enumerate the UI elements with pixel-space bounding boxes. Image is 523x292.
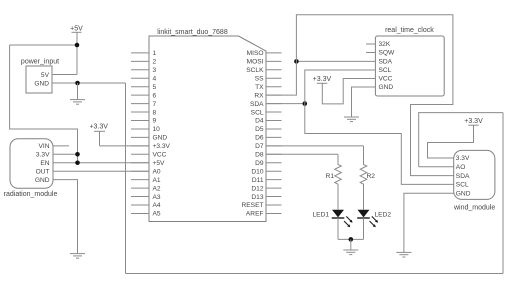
svg-text:D8: D8 <box>255 152 264 159</box>
svg-text:R1: R1 <box>326 173 335 180</box>
svg-text:AO: AO <box>456 164 466 171</box>
wire +5V horizontal to left rail <box>10 44 77 46</box>
wire GND bus down left of chip <box>125 83 127 274</box>
svg-text:9: 9 <box>153 118 157 125</box>
power +3.3V symbol left <box>89 123 108 146</box>
resistor R2 <box>360 146 375 210</box>
svg-text:SDA: SDA <box>456 173 470 180</box>
svg-text:1: 1 <box>153 50 157 57</box>
svg-text:VIN: VIN <box>39 143 50 150</box>
wire radiation OUT to chip A0 <box>53 170 149 172</box>
wire RTC SCL to chip SDA and wind SCL <box>305 70 454 184</box>
wire radiation EN to chip +5V <box>53 162 149 164</box>
svg-text:VCC: VCC <box>153 152 167 159</box>
wire LED cathode bus <box>338 238 364 240</box>
svg-text:A0: A0 <box>153 168 161 175</box>
svg-text:radiation_module: radiation_module <box>4 191 58 198</box>
svg-text:AREF: AREF <box>246 211 264 218</box>
wire GND bus bottom <box>126 273 504 275</box>
svg-text:VCC: VCC <box>379 76 393 83</box>
wire GND bus right riser <box>502 113 504 274</box>
svg-text:R2: R2 <box>367 173 376 180</box>
svg-text:A3: A3 <box>153 194 161 201</box>
svg-text:2: 2 <box>153 59 157 66</box>
svg-text:GND: GND <box>456 190 471 197</box>
wire +3.3V to chip pin <box>100 145 150 147</box>
svg-text:8: 8 <box>153 109 157 116</box>
node radiation 3.3V junction <box>75 152 80 157</box>
svg-text:6: 6 <box>153 92 157 99</box>
wire +3.3V to wind 3.3V pin <box>428 125 474 158</box>
svg-text:5: 5 <box>153 84 157 91</box>
wire radiation GND down <box>53 180 78 254</box>
radiation_module <box>4 139 58 198</box>
svg-text:LED2: LED2 <box>375 212 392 219</box>
svg-text:A5: A5 <box>153 211 161 218</box>
svg-text:3: 3 <box>153 67 157 74</box>
svg-text:32K: 32K <box>379 41 391 48</box>
svg-text:A1: A1 <box>153 177 161 184</box>
LED LED2 <box>357 210 391 240</box>
svg-text:D4: D4 <box>255 118 264 125</box>
svg-text:D12: D12 <box>251 185 263 192</box>
svg-text:D6: D6 <box>255 135 264 142</box>
svg-text:RX: RX <box>254 92 264 99</box>
svg-text:+5V: +5V <box>70 26 83 33</box>
wire chip SDA pin <box>266 103 305 105</box>
wire power GND pin <box>52 82 126 84</box>
power +3.3V symbol wind <box>464 118 483 125</box>
power_input module <box>21 59 59 94</box>
svg-text:GND: GND <box>379 84 394 91</box>
ground radiation <box>70 254 85 259</box>
svg-text:SCLK: SCLK <box>246 67 264 74</box>
svg-text:OUT: OUT <box>36 168 50 175</box>
wire wind AO pin <box>419 166 454 168</box>
svg-text:+3.3V: +3.3V <box>89 123 108 130</box>
wire chip RX to RTC SDA to wind SDA loop <box>266 15 454 176</box>
wire left +5V rail down to radiation module column <box>10 45 78 163</box>
node LED junction <box>349 237 354 242</box>
svg-text:MOSI: MOSI <box>247 59 264 66</box>
power +5V symbol <box>70 26 83 75</box>
svg-text:4: 4 <box>153 75 157 82</box>
svg-text:GND: GND <box>34 81 49 88</box>
svg-text:LED1: LED1 <box>313 212 330 219</box>
svg-text:SDA: SDA <box>379 59 393 66</box>
svg-text:A2: A2 <box>153 185 161 192</box>
LED LED1 <box>313 210 353 240</box>
wind_module <box>453 150 495 211</box>
svg-text:SS: SS <box>255 75 264 82</box>
svg-text:SCL: SCL <box>456 182 469 189</box>
svg-text:SCL: SCL <box>379 67 392 74</box>
wire chip D8 to R1 <box>266 153 338 155</box>
wire RTC GND down <box>352 87 376 117</box>
svg-text:D11: D11 <box>252 177 264 184</box>
svg-text:TX: TX <box>255 84 264 91</box>
node power GND junction <box>75 81 80 86</box>
svg-text:real_time_clock: real_time_clock <box>385 27 434 34</box>
svg-text:+3.3V: +3.3V <box>153 143 171 150</box>
svg-text:GND: GND <box>153 135 168 142</box>
node RTC SDA junction <box>294 59 299 64</box>
ground wind <box>396 252 411 257</box>
wire +3.3V to RTC VCC <box>322 79 375 104</box>
wire radiation 3.3V pin <box>53 153 78 155</box>
wire power 5V pin <box>52 74 77 76</box>
svg-text:SQW: SQW <box>379 50 396 57</box>
svg-text:D5: D5 <box>255 126 264 133</box>
svg-text:10: 10 <box>153 126 161 133</box>
svg-text:3.3V: 3.3V <box>456 155 470 162</box>
svg-text:GND: GND <box>35 177 50 184</box>
svg-text:MISO: MISO <box>247 50 264 57</box>
wire RTC SQW stub <box>366 52 375 54</box>
wire wind AO to right bus <box>419 113 503 167</box>
node chip SDA junction <box>303 101 308 106</box>
svg-text:A4: A4 <box>153 202 161 209</box>
svg-text:3.3V: 3.3V <box>36 152 50 159</box>
svg-text:RESET: RESET <box>242 202 264 209</box>
resistor R1 <box>326 154 342 209</box>
svg-text:SCL: SCL <box>251 109 264 116</box>
wire radiation VIN stub <box>53 145 69 147</box>
wire RTC SDA pin <box>296 60 375 62</box>
svg-text:SDA: SDA <box>250 101 264 108</box>
svg-text:+3.3V: +3.3V <box>313 76 332 83</box>
ground led <box>343 239 358 254</box>
svg-text:EN: EN <box>40 160 49 167</box>
wire RTC 32K stub <box>366 43 375 45</box>
svg-text:+3.3V: +3.3V <box>464 118 483 125</box>
svg-text:linkit_smart_duo_7688: linkit_smart_duo_7688 <box>157 29 228 36</box>
svg-text:wind_module: wind_module <box>453 204 495 211</box>
svg-text:D13: D13 <box>251 194 263 201</box>
svg-text:power_input: power_input <box>21 59 59 66</box>
svg-text:D10: D10 <box>251 168 263 175</box>
svg-text:D7: D7 <box>255 143 264 150</box>
node +5V junction <box>75 43 80 48</box>
svg-text:7: 7 <box>153 101 157 108</box>
svg-text:5V: 5V <box>41 72 50 79</box>
node radiation EN junction <box>75 160 80 165</box>
power +3.3V symbol rtc <box>313 76 332 83</box>
IC real_time_clock <box>375 27 444 96</box>
wire wind GND down <box>404 193 454 252</box>
svg-text:+5V: +5V <box>153 160 166 167</box>
ground rtc <box>344 117 359 122</box>
IC U1 linkit_smart_duo_7688 <box>131 29 282 222</box>
ground power <box>70 83 85 104</box>
svg-text:D9: D9 <box>255 160 264 167</box>
wire chip D7 to R2 <box>266 145 364 147</box>
